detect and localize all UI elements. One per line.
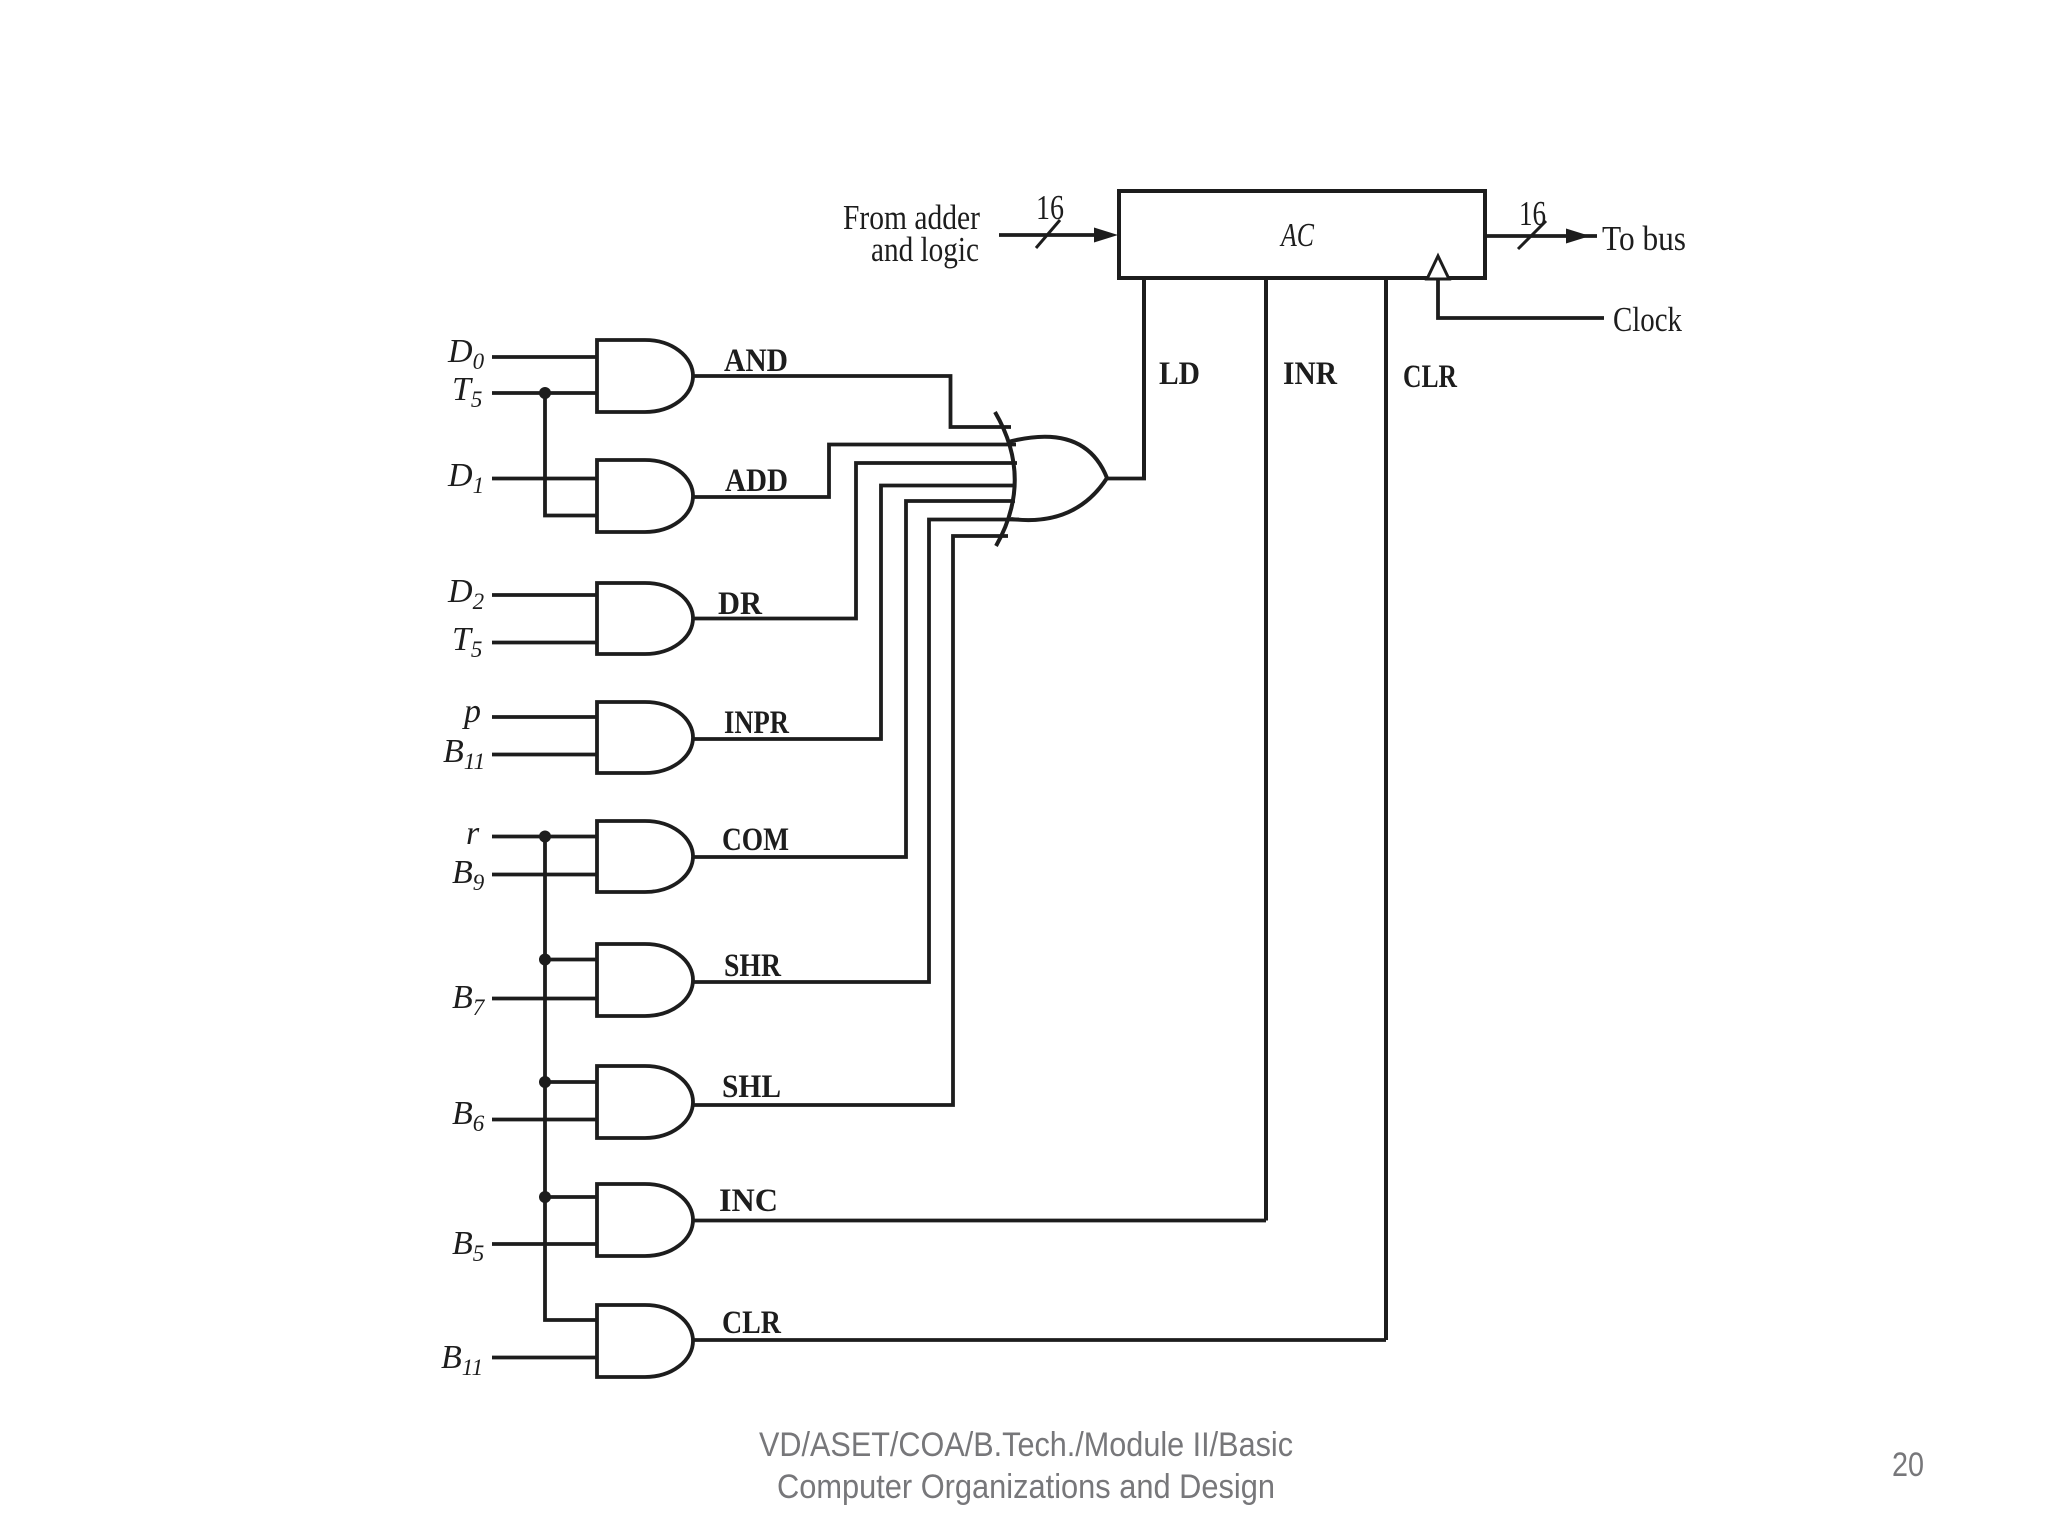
svg-text:AC: AC — [1279, 217, 1314, 254]
svg-text:LD: LD — [1159, 356, 1200, 392]
svg-text:INR: INR — [1283, 356, 1338, 392]
svg-text:SHL: SHL — [722, 1069, 781, 1105]
svg-text:D1: D1 — [447, 457, 484, 498]
svg-text:CLR: CLR — [1403, 359, 1458, 395]
svg-text:T5: T5 — [452, 371, 482, 412]
svg-text:To bus: To bus — [1602, 219, 1686, 258]
svg-text:16: 16 — [1036, 188, 1064, 227]
svg-text:ADD: ADD — [725, 463, 788, 499]
svg-text:B6: B6 — [452, 1095, 485, 1136]
svg-text:COM: COM — [722, 822, 789, 858]
svg-text:B11: B11 — [443, 733, 485, 774]
svg-text:INPR: INPR — [724, 705, 790, 741]
svg-text:VD/ASET/COA/B.Tech./Module II/: VD/ASET/COA/B.Tech./Module II/Basic — [759, 1426, 1293, 1464]
svg-text:AND: AND — [724, 343, 788, 379]
svg-text:B5: B5 — [452, 1225, 484, 1266]
svg-text:Clock: Clock — [1613, 300, 1682, 339]
svg-text:CLR: CLR — [722, 1305, 782, 1341]
svg-text:INC: INC — [719, 1183, 778, 1219]
svg-text:Computer Organizations and Des: Computer Organizations and Design — [777, 1468, 1275, 1506]
svg-text:B11: B11 — [441, 1339, 483, 1380]
svg-text:p: p — [462, 693, 481, 730]
svg-text:r: r — [466, 815, 480, 852]
svg-text:B7: B7 — [452, 979, 486, 1020]
svg-text:16: 16 — [1519, 194, 1546, 233]
svg-text:T5: T5 — [452, 621, 482, 662]
svg-text:20: 20 — [1892, 1446, 1924, 1484]
svg-text:DR: DR — [718, 586, 763, 622]
svg-text:SHR: SHR — [724, 948, 782, 984]
svg-text:D2: D2 — [447, 573, 484, 614]
svg-text:B9: B9 — [452, 854, 485, 895]
svg-text:and logic: and logic — [871, 230, 979, 269]
svg-text:D0: D0 — [447, 333, 485, 374]
